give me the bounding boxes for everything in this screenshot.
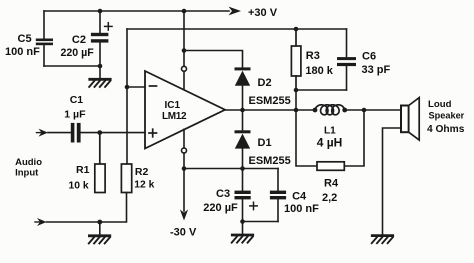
resistor R4	[317, 162, 344, 171]
svg-text:4 Ohms: 4 Ohms	[427, 124, 465, 135]
svg-text:R3: R3	[306, 50, 320, 62]
wire +30V top rail	[44, 10, 229, 12]
wire V+ supply drop to op-amp	[183, 11, 185, 66]
ground (input)	[89, 236, 110, 244]
svg-text:Input: Input	[15, 168, 39, 179]
svg-text:C4: C4	[292, 190, 307, 202]
node L1 left terminal	[313, 108, 318, 113]
input ground arrow terminal	[37, 218, 47, 226]
ground (C3/C4)	[232, 235, 253, 243]
wire R3/C6 bottom join	[296, 89, 347, 91]
wire R4 left branch	[296, 110, 317, 166]
resistor R2	[121, 164, 131, 193]
minus sign (inverting input)	[150, 85, 157, 87]
wire op-amp output line	[225, 109, 401, 111]
svg-text:4 µH: 4 µH	[317, 135, 343, 149]
polarity + of C3	[250, 202, 257, 209]
audio input arrow terminal	[39, 129, 49, 137]
svg-text:-30 V: -30 V	[170, 227, 197, 239]
capacitor C3	[235, 169, 251, 235]
wire input to C1	[48, 132, 71, 134]
wire R4 right branch	[344, 110, 364, 166]
capacitor C1	[71, 123, 145, 143]
loudspeaker	[401, 106, 409, 133]
wire C5/C2 bottom rail	[44, 65, 100, 67]
svg-text:R4: R4	[324, 177, 339, 189]
node -30V rail / D1-C3 junction	[240, 166, 245, 171]
node output / feedback-R4 junction	[294, 108, 299, 113]
capacitor C6	[337, 29, 356, 90]
svg-text:220 µF: 220 µF	[203, 202, 238, 214]
ground (speaker)	[372, 236, 393, 244]
pin V- of op-amp	[182, 148, 187, 153]
wire input ground rail	[47, 221, 100, 223]
svg-text:C6: C6	[362, 50, 376, 62]
capacitor C2	[91, 11, 109, 66]
svg-text:R2: R2	[135, 166, 149, 178]
wire speaker bottom terminal to ground	[383, 128, 402, 235]
wire feedback rail (inverting input to R3/C6)	[127, 28, 347, 30]
node -30V rail / V- drop junction	[182, 166, 187, 171]
svg-text:+30 V: +30 V	[248, 7, 278, 19]
svg-text:R1: R1	[76, 164, 90, 176]
wire V- pin to -30V arrow	[183, 153, 185, 211]
svg-text:Audio: Audio	[15, 157, 42, 168]
resistor R3	[291, 29, 301, 90]
svg-text:D1: D1	[258, 137, 272, 149]
+30V arrow terminal	[229, 7, 242, 16]
node C3/C4 bottom join	[240, 219, 245, 224]
svg-text:220 µF: 220 µF	[61, 47, 95, 59]
svg-text:100 nF: 100 nF	[284, 203, 319, 215]
node inverting input junction	[125, 85, 130, 90]
node top rail / V+ branch junction	[182, 9, 187, 14]
ground (C2/C5)	[89, 79, 110, 87]
diode D2	[235, 67, 251, 110]
svg-text:Speaker: Speaker	[429, 111, 465, 121]
wire feedback down to output	[295, 90, 297, 110]
svg-text:33 pF: 33 pF	[362, 64, 391, 76]
wire -30V rail	[184, 168, 278, 170]
wire D2 branch to +30V	[184, 51, 243, 68]
wire pin to triangle edge	[183, 71, 185, 89]
node ground rail / R1 junction	[97, 220, 102, 225]
svg-text:12 k: 12 k	[134, 180, 154, 191]
svg-text:10 k: 10 k	[69, 180, 89, 191]
svg-text:D2: D2	[258, 77, 272, 89]
node L1 right terminal	[342, 108, 347, 113]
wire op-amp V- pin drop	[183, 129, 185, 148]
svg-text:180 k: 180 k	[305, 65, 333, 77]
svg-text:ESM255: ESM255	[249, 95, 291, 107]
svg-text:C3: C3	[216, 188, 230, 200]
node output / L1-R4 right junction	[362, 108, 367, 113]
svg-text:2,2: 2,2	[322, 192, 337, 204]
capacitor C5	[36, 11, 53, 66]
svg-text:C5: C5	[18, 33, 32, 45]
resistor R1	[95, 133, 105, 193]
node feedback rail / R3 top	[294, 27, 299, 32]
svg-text:ESM255: ESM255	[249, 155, 291, 167]
svg-text:C2: C2	[72, 34, 86, 46]
node non-inverting input / R1 junction	[97, 130, 102, 135]
op-amp IC1 LM12	[145, 71, 225, 149]
wire to ground from C2/C5	[99, 66, 101, 79]
svg-text:Loud: Loud	[428, 99, 452, 110]
pin V+ of op-amp	[182, 66, 187, 71]
diode D1	[235, 110, 251, 169]
plus sign (non-inverting input)	[149, 129, 157, 137]
wire to input ground symbol	[99, 222, 101, 235]
svg-text:IC1: IC1	[165, 100, 181, 111]
node top rail / C2 junction	[98, 9, 103, 14]
wire inverting input	[127, 86, 145, 88]
node R3 bottom junction	[294, 88, 299, 93]
svg-text:C1: C1	[70, 94, 84, 106]
svg-text:LM12: LM12	[162, 111, 187, 122]
wire C4 bottom join	[243, 221, 279, 223]
svg-text:100 nF: 100 nF	[5, 46, 40, 58]
node output / diodes junction	[240, 108, 245, 113]
polarity + of C2	[105, 23, 112, 30]
capacitor C4	[270, 169, 286, 222]
-30V arrow terminal	[180, 210, 188, 221]
svg-text:1 µF: 1 µF	[64, 108, 86, 120]
node V+ / D2 branch junction	[182, 48, 187, 53]
inductor L1	[315, 105, 345, 115]
wire feedback vertical to R2	[126, 29, 128, 164]
wire R2 bottom to ground rail	[100, 193, 127, 223]
node C2 bottom junction	[98, 64, 103, 69]
